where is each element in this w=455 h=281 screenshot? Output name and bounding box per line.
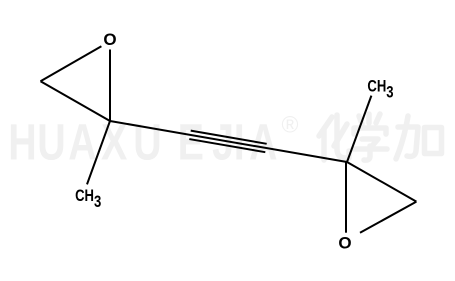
- svg-text:O: O: [338, 233, 351, 252]
- svg-text:O: O: [103, 30, 116, 49]
- svg-text:®: ®: [282, 112, 299, 138]
